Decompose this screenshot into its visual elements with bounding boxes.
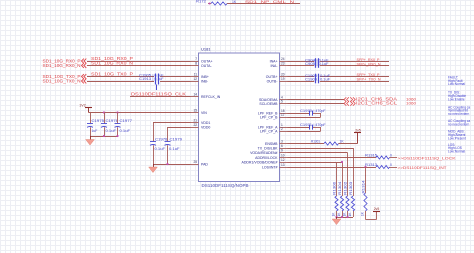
pin 3 ENSMB (right) bbox=[280, 143, 288, 145]
svg-text:| 0.1uF: | 0.1uF bbox=[153, 77, 164, 81]
svg-text:R1302: R1302 bbox=[344, 182, 348, 195]
junction at C1976 bottom bbox=[103, 135, 105, 137]
pin 13 LOS/INT# (right) bbox=[280, 167, 288, 169]
svg-text:VIN: VIN bbox=[201, 111, 207, 115]
wire ADDR0/LOCK to R1315 bbox=[288, 157, 377, 159]
svg-text:9: 9 bbox=[281, 148, 283, 152]
svg-text:SD1_10G_TX0_N: SD1_10G_TX0_N bbox=[43, 79, 81, 84]
svg-text:U181: U181 bbox=[201, 47, 211, 52]
svg-text:OUTA-: OUTA- bbox=[201, 64, 212, 68]
wire VODA/READEN# to R1302 bbox=[288, 152, 348, 154]
ground pulldown bank bbox=[336, 217, 338, 219]
svg-text:VDD0: VDD0 bbox=[201, 125, 210, 129]
svg-text:OUTA+: OUTA+ bbox=[201, 59, 213, 63]
junction R1302 bottom bbox=[346, 216, 348, 218]
svg-text:SFP+_TX0_N: SFP+_TX0_N bbox=[357, 78, 382, 82]
wire pin 24 INA+ to C904 bbox=[288, 61, 315, 63]
svg-text:SD1_10G_RX0_N: SD1_10G_RX0_N bbox=[91, 61, 133, 66]
junction ADDR1/R1304 bbox=[341, 161, 343, 163]
wire DS110DF111SQ_CLK to pin 14 bbox=[130, 96, 191, 98]
svg-text:2: 2 bbox=[281, 127, 283, 131]
svg-text:1K: 1K bbox=[348, 212, 352, 217]
svg-text:no need extern: no need extern bbox=[448, 112, 469, 116]
svg-text:SCL/OEMB: SCL/OEMB bbox=[259, 102, 278, 106]
svg-text:1K: 1K bbox=[343, 212, 347, 217]
svg-text:Low:Normal: Low:Normal bbox=[448, 82, 465, 86]
svg-text:1K: 1K bbox=[340, 139, 345, 143]
svg-text:1K: 1K bbox=[232, 0, 237, 4]
svg-text:R1304: R1304 bbox=[338, 182, 342, 195]
wire R1315 to DS110DF111SQ_LOCK bbox=[390, 157, 398, 159]
svg-text:0.1uF: 0.1uF bbox=[155, 147, 166, 151]
svg-text:>>DS110DF111SQ_LOCK: >>DS110DF111SQ_LOCK bbox=[398, 156, 457, 160]
svg-text:SFP+_RX0_N: SFP+_RX0_N bbox=[357, 62, 382, 66]
junction at C1977 bottom bbox=[116, 135, 118, 137]
wire pulldown bus bbox=[337, 217, 354, 219]
pin 10 ADDR0/LOCK (right) bbox=[280, 157, 288, 159]
svg-text:INA+: INA+ bbox=[270, 59, 278, 63]
svg-text:2v5: 2v5 bbox=[355, 128, 361, 132]
wire C905 to SFP+_RX0_N bbox=[320, 65, 389, 67]
wire SD1_10G_TX0_N to capacitor C1913 bbox=[87, 81, 154, 83]
svg-text:OUTB-: OUTB- bbox=[267, 79, 279, 83]
wire TX_DIS/LBK to R1303 bbox=[288, 148, 354, 150]
ground for VIN capacitors bbox=[90, 136, 92, 140]
pin 2 LPF_CP_A (right) bbox=[280, 131, 288, 133]
pin 14 REFCLK_IN (left) bbox=[191, 96, 199, 98]
pin 12 INB- (left) bbox=[191, 81, 199, 83]
svg-text:LPF_CP_B: LPF_CP_B bbox=[260, 116, 278, 120]
pin 9 VODA/READEN# (right) bbox=[280, 152, 288, 154]
svg-text:0.1uF: 0.1uF bbox=[169, 147, 180, 151]
svg-text:19: 19 bbox=[281, 77, 285, 81]
wire ADDR1/VODB/DONE# to R1300 and R1304 bbox=[288, 162, 343, 164]
svg-text:C1979: C1979 bbox=[170, 138, 183, 142]
junction on R172 net bbox=[209, 3, 211, 5]
wire R1314 to 2v5 bbox=[365, 211, 367, 220]
svg-text:no need extern: no need extern bbox=[448, 122, 469, 126]
wire C904 to SFP+_RX0_P bbox=[320, 61, 389, 63]
svg-text:C1971: C1971 bbox=[300, 123, 312, 127]
svg-text:LPF_CP_A: LPF_CP_A bbox=[260, 130, 278, 134]
svg-text:17: 17 bbox=[281, 113, 285, 117]
wire SD1_10G_TX0_P to capacitor C1905 bbox=[87, 76, 154, 78]
svg-text:0.1uF: 0.1uF bbox=[120, 129, 131, 133]
svg-text:OUTB+: OUTB+ bbox=[266, 75, 278, 79]
svg-text:R172: R172 bbox=[196, 0, 206, 4]
wire pin 4 SDA/OEMA bbox=[288, 99, 345, 101]
svg-text:25: 25 bbox=[193, 160, 197, 164]
svg-text:INB-: INB- bbox=[201, 79, 209, 83]
svg-text:1K: 1K bbox=[361, 211, 365, 216]
pin 22 VDD0 (left) bbox=[191, 127, 199, 129]
wire LOS/INT# to R1313 bbox=[288, 167, 377, 169]
power 2v5 (R1301) bbox=[357, 133, 359, 144]
svg-text:Low:Enable: Low:Enable bbox=[448, 97, 465, 101]
wire 1V2 to pin 15 (VIN) bbox=[89, 112, 191, 114]
svg-text:C1913: C1913 bbox=[139, 77, 151, 81]
svg-text:20: 20 bbox=[281, 72, 285, 76]
wire pin 22 (VDD0) bbox=[168, 127, 191, 129]
svg-text:| 0.1uF: | 0.1uF bbox=[317, 62, 329, 66]
pin 15 VIN (left) bbox=[191, 112, 199, 114]
svg-text:R1300: R1300 bbox=[333, 182, 337, 195]
off-page connector I2C1_CH6_SDA bbox=[344, 97, 349, 101]
svg-text:11: 11 bbox=[194, 72, 198, 76]
svg-text:| 470pF: | 470pF bbox=[314, 109, 326, 113]
wire pin 5 SCL/OEMB bbox=[288, 103, 345, 105]
svg-text:1060: 1060 bbox=[406, 102, 416, 106]
junction LOS/R1314 bbox=[364, 166, 366, 168]
pin 6 TX_DIS/LBK (right) bbox=[280, 148, 288, 150]
svg-text:R1313: R1313 bbox=[365, 163, 377, 167]
svg-text:1K: 1K bbox=[332, 212, 336, 217]
svg-text:DS110DF111SQ_CLK: DS110DF111SQ_CLK bbox=[131, 92, 186, 97]
svg-text:R1301: R1301 bbox=[311, 139, 320, 143]
pin 7 OUTA+ (left) bbox=[191, 61, 199, 63]
svg-text:6: 6 bbox=[281, 144, 283, 148]
wire capacitor C1905 to pin 11 bbox=[160, 76, 191, 78]
svg-text:ADDR0/LOCK: ADDR0/LOCK bbox=[255, 156, 278, 160]
svg-text:22: 22 bbox=[193, 123, 197, 127]
svg-text:3: 3 bbox=[281, 139, 283, 143]
wire capacitor bottoms bus bbox=[90, 136, 118, 138]
svg-text:C1976: C1976 bbox=[106, 119, 119, 123]
pin 18 LPF_REF_B (right) bbox=[280, 113, 288, 115]
svg-text:| 470pF: | 470pF bbox=[314, 123, 326, 127]
svg-text:INB+: INB+ bbox=[201, 75, 209, 79]
svg-text:SD1_NP_CML_N: SD1_NP_CML_N bbox=[245, 0, 294, 4]
power 2v5 (R1314) bbox=[373, 211, 380, 213]
svg-text:VDD1: VDD1 bbox=[201, 121, 210, 125]
svg-text:14: 14 bbox=[193, 92, 197, 96]
svg-text:0: 0 bbox=[390, 163, 392, 167]
svg-text:15: 15 bbox=[193, 108, 197, 112]
svg-text:C905: C905 bbox=[305, 62, 315, 66]
pin 4 SDA/OEMA (right) bbox=[280, 99, 288, 101]
pin 19 OUTB- (right) bbox=[280, 81, 288, 83]
junction R1300 bottom bbox=[335, 216, 337, 218]
junction at C1977 top bbox=[116, 111, 118, 113]
wire pin 23 INA- to C905 bbox=[288, 65, 315, 67]
svg-text:R1315: R1315 bbox=[365, 154, 377, 158]
svg-text:21: 21 bbox=[193, 118, 197, 122]
pin 11 INB+ (left) bbox=[191, 76, 199, 78]
wire LPF_REF_B loop bbox=[288, 113, 310, 115]
svg-text:| 0.1uF: | 0.1uF bbox=[318, 78, 330, 82]
svg-text:SD1_10G_RX0_N: SD1_10G_RX0_N bbox=[43, 63, 81, 68]
svg-text:10: 10 bbox=[281, 153, 285, 157]
svg-text:1uF: 1uF bbox=[92, 129, 98, 133]
svg-text:C1977: C1977 bbox=[120, 119, 133, 123]
svg-text:>>DS110DF111SQ_INT: >>DS110DF111SQ_INT bbox=[398, 166, 448, 170]
svg-text:SFP+_TX0_P: SFP+_TX0_P bbox=[357, 73, 381, 77]
ground for VDD capacitors and PAD bbox=[153, 164, 155, 167]
svg-text:TX_DIS/LBK: TX_DIS/LBK bbox=[258, 146, 279, 150]
svg-text:SD1_10G_TX0_P: SD1_10G_TX0_P bbox=[91, 72, 133, 77]
svg-text:REFCLK_IN: REFCLK_IN bbox=[201, 95, 221, 99]
pin 1 LPF_REF_A (right) bbox=[280, 127, 288, 129]
junction at C1979 bottom / PAD bbox=[166, 163, 168, 165]
wire C1908 to SFP+_TX0_P bbox=[320, 76, 389, 78]
svg-text:23: 23 bbox=[281, 61, 285, 65]
wire LPF_REF_A loop bbox=[288, 127, 310, 129]
wire R1313 to DS110DF111SQ_INT bbox=[390, 167, 398, 169]
svg-text:12: 12 bbox=[281, 158, 285, 162]
svg-text:7: 7 bbox=[195, 57, 197, 61]
pin 8 OUTA- (left) bbox=[191, 65, 199, 67]
wire PAD pin 25 to ground bus bbox=[153, 164, 191, 166]
pin 12 ADDR1/VODB/DONE# (right) bbox=[280, 162, 288, 164]
wire SD1_10G_RX0_P to pin 7 bbox=[87, 61, 191, 63]
pin 21 VDD1 (left) bbox=[191, 122, 199, 124]
op-amp U181 body bbox=[199, 53, 280, 182]
svg-text:C1978: C1978 bbox=[155, 138, 168, 142]
pin 20 OUTB+ (right) bbox=[280, 76, 288, 78]
pin 24 INA+ (right) bbox=[280, 61, 288, 63]
wire C1909 to SFP+_TX0_N bbox=[320, 81, 389, 83]
svg-text:C1970: C1970 bbox=[300, 109, 312, 113]
pin 25 PAD (left) bbox=[191, 164, 199, 166]
pin 5 SCL/OEMB (right) bbox=[280, 103, 288, 105]
svg-text:8: 8 bbox=[195, 61, 197, 65]
svg-text:VODA/READEN#: VODA/READEN# bbox=[250, 151, 277, 155]
svg-text:5: 5 bbox=[281, 99, 283, 103]
svg-text:0.1uF: 0.1uF bbox=[106, 129, 117, 133]
svg-text:C1975: C1975 bbox=[92, 119, 105, 123]
wire pin 20 OUTB+ to C1908 bbox=[288, 76, 315, 78]
svg-text:ENSMB: ENSMB bbox=[265, 142, 278, 146]
svg-text:INA-: INA- bbox=[271, 64, 279, 68]
svg-text:R1303: R1303 bbox=[349, 182, 353, 195]
svg-text:12: 12 bbox=[193, 77, 197, 81]
pin 23 INA- (right) bbox=[280, 65, 288, 67]
svg-text:Low:Normal: Low:Normal bbox=[448, 150, 465, 154]
wire pin 19 OUTB- to C1909 bbox=[288, 81, 315, 83]
svg-text:DS110DF111SQ/NOPB: DS110DF111SQ/NOPB bbox=[202, 183, 249, 188]
svg-text:Low:Present: Low:Present bbox=[448, 136, 466, 140]
svg-text:C1909: C1909 bbox=[305, 78, 317, 82]
svg-text:2v5: 2v5 bbox=[374, 207, 380, 211]
wire capacitor C1913 to pin 12 bbox=[160, 81, 191, 83]
svg-text:24: 24 bbox=[281, 57, 285, 61]
junction R1304 bottom bbox=[341, 216, 343, 218]
svg-text:I2C1_CH6_SCL: I2C1_CH6_SCL bbox=[356, 101, 398, 106]
svg-text:LOS/INT#: LOS/INT# bbox=[262, 165, 278, 169]
svg-text:PAD: PAD bbox=[201, 162, 208, 166]
wire SD1_10G_RX0_N to pin 8 bbox=[87, 65, 191, 67]
junction at C1976 top bbox=[103, 111, 105, 113]
wire pin 21 (VDD1) bbox=[153, 122, 191, 124]
svg-text:13: 13 bbox=[281, 163, 285, 167]
off-page connector I2C1_CH6_SCL bbox=[344, 101, 349, 105]
svg-text:1V2: 1V2 bbox=[79, 103, 85, 107]
svg-text:1K: 1K bbox=[337, 212, 341, 217]
pin 17 LPF_CP_B (right) bbox=[280, 117, 288, 119]
svg-text:ADDR1/VODB/DONE#: ADDR1/VODB/DONE# bbox=[242, 160, 278, 164]
